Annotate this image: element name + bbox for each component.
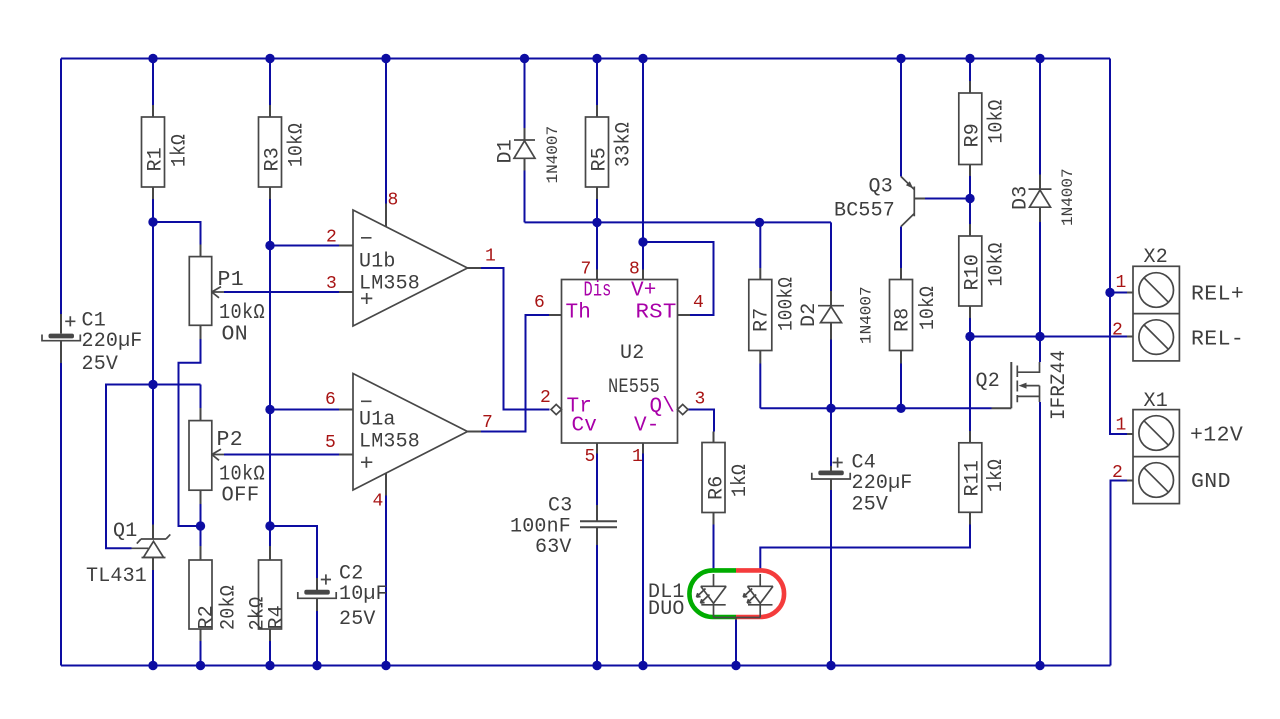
svg-text:+12V: +12V <box>1190 424 1243 448</box>
LED left diode <box>701 574 726 618</box>
svg-text:X2: X2 <box>1144 246 1168 269</box>
svg-text:R2: R2 <box>196 605 219 629</box>
svg-text:6: 6 <box>534 293 545 313</box>
wire V+ column to 555 pin8 <box>642 59 644 270</box>
wire C4 top <box>830 408 832 466</box>
LED ring green half <box>689 570 736 617</box>
svg-text:D2: D2 <box>798 303 821 327</box>
wire R3 top <box>269 59 271 106</box>
wire X2 pin2 net <box>970 336 1128 338</box>
svg-text:1: 1 <box>632 447 643 467</box>
LED cathode bus <box>714 618 761 621</box>
junction top rail R9 <box>965 54 974 63</box>
svg-text:Q3: Q3 <box>869 176 893 199</box>
wire R1 top <box>152 59 154 106</box>
wire D1 bottom <box>524 171 526 223</box>
svg-text:7: 7 <box>581 260 592 280</box>
junction top rail pin8 <box>381 54 390 63</box>
svg-text:P1: P1 <box>218 268 245 292</box>
wire RST loop <box>643 242 714 315</box>
svg-text:DUO: DUO <box>648 598 685 621</box>
junction bottom 555 pin1 <box>638 661 647 670</box>
transistor Q2 IRFZ44 MOSFET <box>976 350 1072 420</box>
svg-text:Q1: Q1 <box>113 520 137 543</box>
svg-text:C3: C3 <box>548 495 572 518</box>
svg-text:25V: 25V <box>852 494 889 517</box>
svg-text:U1b: U1b <box>359 251 396 274</box>
junction P-R2 <box>196 521 205 530</box>
wire left rail upper <box>60 59 62 315</box>
wire R6 bottom to LED <box>713 525 715 573</box>
svg-text:220µF: 220µF <box>82 330 143 353</box>
junction bottom C3 <box>592 661 601 670</box>
wire R3 bottom to R4 top <box>269 199 271 546</box>
svg-text:10kΩ: 10kΩ <box>286 123 309 167</box>
svg-text:10kΩ: 10kΩ <box>219 301 265 325</box>
wire right rail <box>1109 59 1111 293</box>
wire D3 bottom <box>1039 222 1041 337</box>
svg-text:R5: R5 <box>589 147 612 171</box>
terminal X2 <box>1127 246 1244 361</box>
wire X2 pin1 branch <box>1110 292 1128 294</box>
svg-text:3: 3 <box>326 274 337 294</box>
junction bottom R4 <box>265 661 274 670</box>
svg-text:1kΩ: 1kΩ <box>985 459 1008 492</box>
svg-text:2: 2 <box>1112 321 1123 341</box>
junction U1b pin2 <box>265 241 274 250</box>
junction top rail Q3e <box>896 54 905 63</box>
svg-text:R6: R6 <box>706 476 729 500</box>
resistor R11 <box>959 431 1008 525</box>
wire P2 bottom <box>200 504 202 546</box>
wire R4 junction to C2 <box>270 526 317 578</box>
op-amp U1b <box>339 204 481 327</box>
wire R11 top <box>969 337 971 432</box>
junction top rail D1 <box>520 54 529 63</box>
junction D2 gate rail <box>826 404 835 413</box>
svg-text:RST: RST <box>636 302 677 325</box>
diode D2 1N4007 <box>798 286 876 344</box>
wire Q2 drain <box>1039 337 1041 363</box>
junction R5 bottom <box>592 218 601 227</box>
LED right diode <box>748 574 774 618</box>
svg-text:5: 5 <box>325 433 336 453</box>
resistor R1 <box>142 105 192 199</box>
wire D1-D2 rail <box>525 221 832 223</box>
junction R4-C2 <box>265 521 274 530</box>
op-amp U1a <box>339 374 481 496</box>
svg-text:2kΩ: 2kΩ <box>247 597 270 631</box>
svg-text:1N4007: 1N4007 <box>858 286 876 344</box>
svg-text:25V: 25V <box>339 608 376 631</box>
resistor R7 <box>749 268 799 364</box>
wire 555 Cv to C3 <box>596 454 598 506</box>
LED right arrows <box>743 589 756 604</box>
svg-text:Th: Th <box>566 302 592 325</box>
svg-text:2: 2 <box>326 228 337 248</box>
wire Q1 anode to bottom rail <box>152 570 154 666</box>
svg-text:R7: R7 <box>751 308 774 332</box>
svg-text:4: 4 <box>373 492 384 512</box>
svg-text:10kΩ: 10kΩ <box>986 100 1009 144</box>
wire D2 top <box>830 222 832 291</box>
wire R8 bottom <box>900 364 902 409</box>
junction R1-P1 <box>148 217 157 226</box>
pin marker Tr diamond <box>551 404 562 414</box>
svg-text:U1a: U1a <box>359 409 396 432</box>
svg-text:GND: GND <box>1191 470 1231 494</box>
junction bottom LED <box>731 661 740 670</box>
wire U1a out to 555 Th <box>481 315 549 432</box>
svg-text:2: 2 <box>540 388 551 408</box>
resistor R3 <box>259 105 309 199</box>
diode D1 1N4007 <box>495 126 563 184</box>
svg-text:8: 8 <box>629 260 640 280</box>
svg-text:1: 1 <box>485 247 496 267</box>
resistor R10 <box>959 224 1009 318</box>
wire R11 bottom to red LED <box>760 525 970 573</box>
wire R7 top <box>759 222 761 268</box>
svg-text:63V: 63V <box>535 536 572 559</box>
wire X1 pin1 branch <box>1110 293 1128 435</box>
svg-text:X1: X1 <box>1144 390 1168 413</box>
wire C3 bottom <box>596 545 598 666</box>
wire R4 bottom <box>269 641 271 666</box>
wire C4 bottom <box>830 490 832 666</box>
junction top rail R3 <box>265 54 274 63</box>
svg-text:Dis: Dis <box>584 280 612 303</box>
junction bottom R2 <box>196 661 205 670</box>
LED ring red half <box>736 570 784 617</box>
wire TL431 ref net <box>106 385 201 549</box>
junction R8 gate rail <box>896 404 905 413</box>
svg-text:LM358: LM358 <box>359 273 420 296</box>
wire left rail lower <box>60 363 62 666</box>
wire U1a pin4 to bottom rail <box>385 496 387 666</box>
svg-text:1N4007: 1N4007 <box>544 126 562 184</box>
wire U1b out to 555 Tr <box>481 268 550 410</box>
wire R9 top <box>969 59 971 82</box>
svg-text:10µF: 10µF <box>339 583 388 606</box>
svg-text:BC557: BC557 <box>834 200 895 223</box>
transistor Q3 BC557 <box>834 176 925 227</box>
junction top rail R5 <box>592 54 601 63</box>
svg-text:REL-: REL- <box>1191 328 1244 352</box>
svg-text:6: 6 <box>325 390 336 410</box>
LED DL1 DUO <box>648 570 784 621</box>
junction top rail D3 <box>1035 54 1044 63</box>
junction bottom U1a pin4 <box>381 661 390 670</box>
wire P2 wiper to U1a pin5 <box>224 454 339 456</box>
svg-text:25V: 25V <box>82 353 119 376</box>
resistor R5 <box>586 105 636 199</box>
junction V+ RST <box>638 237 647 246</box>
svg-text:1: 1 <box>1116 273 1127 293</box>
svg-text:D1: D1 <box>495 139 518 163</box>
capacitor C2 <box>298 563 388 632</box>
capacitor C3 <box>510 495 617 560</box>
wire D3 top <box>1039 59 1041 175</box>
junction top rail V+ <box>638 54 647 63</box>
junction ref net <box>148 380 157 389</box>
svg-text:7: 7 <box>482 413 493 433</box>
junction D3-Q2 <box>1035 332 1044 341</box>
svg-text:1: 1 <box>1116 416 1127 436</box>
wire Q3 collector to R8 <box>900 227 902 269</box>
junction X2 pin1 <box>1105 288 1114 297</box>
svg-text:R1: R1 <box>145 147 168 171</box>
wire U1b pin2 <box>270 245 339 247</box>
wire LED cathode to bottom rail <box>735 620 737 666</box>
wire bottom rail <box>61 665 1111 667</box>
svg-text:LM358: LM358 <box>359 431 420 454</box>
svg-text:100kΩ: 100kΩ <box>776 277 799 331</box>
svg-text:V+: V+ <box>631 280 657 303</box>
svg-text:R11: R11 <box>962 460 985 497</box>
wire 555 Q out to R6 <box>688 410 714 432</box>
wire X1 pin2 to bottom rail <box>1111 481 1129 666</box>
wire R1 bottom to junction <box>152 199 154 222</box>
junction bottom C4 <box>826 661 835 670</box>
resistor R8 <box>890 268 941 364</box>
svg-text:5: 5 <box>585 447 596 467</box>
svg-text:TL431: TL431 <box>86 565 147 588</box>
svg-text:P2: P2 <box>217 428 244 452</box>
wire R10 bottom <box>969 318 971 337</box>
svg-text:REL+: REL+ <box>1191 283 1244 307</box>
svg-text:U2: U2 <box>620 342 644 365</box>
wire D1 top <box>524 59 526 129</box>
svg-text:IFRZ44: IFRZ44 <box>1048 350 1071 420</box>
wire P2 top <box>200 385 202 409</box>
resistor R4 <box>247 546 289 641</box>
svg-text:V-: V- <box>634 415 660 438</box>
wire top rail <box>61 58 1110 60</box>
wire Q3 base <box>925 198 970 200</box>
wire U1a pin6 <box>270 409 339 411</box>
capacitor C4 <box>812 452 913 517</box>
pin marker Q diamond <box>678 404 689 414</box>
svg-text:R8: R8 <box>892 308 915 332</box>
wire U1b pin8 <box>385 59 387 204</box>
potentiometer P2 <box>189 408 265 508</box>
wire gate rail <box>760 407 991 409</box>
svg-text:10kΩ: 10kΩ <box>986 243 1009 287</box>
svg-text:33kΩ: 33kΩ <box>613 122 636 167</box>
svg-text:3: 3 <box>695 390 706 410</box>
svg-text:Q2: Q2 <box>976 370 1000 393</box>
resistor R9 <box>959 81 1009 176</box>
junction bottom C2 <box>312 661 321 670</box>
wire P1 bottom to R2 junction <box>179 339 201 526</box>
wire R5 top <box>596 59 598 106</box>
svg-text:D3: D3 <box>1010 186 1033 210</box>
svg-text:R9: R9 <box>962 123 985 147</box>
svg-text:OFF: OFF <box>222 484 260 508</box>
svg-text:1kΩ: 1kΩ <box>729 464 752 497</box>
wire R1 junction to Q1 cathode <box>152 222 154 525</box>
wire Q3 emitter <box>900 59 902 177</box>
svg-text:20kΩ: 20kΩ <box>218 585 241 630</box>
wire R5 bottom to 555 pin7 <box>596 199 598 270</box>
LED left arrows <box>697 589 710 604</box>
svg-text:2: 2 <box>1112 463 1123 483</box>
resistor R2 <box>189 546 241 641</box>
svg-text:R10: R10 <box>962 254 985 291</box>
wire R7 bottom <box>759 364 761 409</box>
wire R9 bottom to base junction <box>969 176 971 224</box>
terminal X1 <box>1127 390 1243 504</box>
wire C2 bottom <box>316 611 318 666</box>
svg-text:Cv: Cv <box>572 415 598 438</box>
svg-text:10kΩ: 10kΩ <box>917 286 940 330</box>
svg-text:8: 8 <box>388 191 399 211</box>
potentiometer P1 <box>189 245 265 347</box>
diode D3 1N4007 <box>1010 168 1078 226</box>
wire R2 bottom <box>200 641 202 666</box>
timer U2 NE555 <box>549 270 690 454</box>
junction R7 top <box>755 218 764 227</box>
svg-text:4: 4 <box>693 293 704 313</box>
junction bottom Q1 <box>148 661 157 670</box>
svg-text:R3: R3 <box>262 147 285 171</box>
wire Q2 source to bottom rail <box>1039 402 1041 666</box>
wire D2 bottom <box>830 340 832 409</box>
junction top rail R1 <box>148 54 157 63</box>
svg-text:ON: ON <box>222 323 249 347</box>
junction U1a pin6 <box>265 405 274 414</box>
junction R10-R11 <box>965 332 974 341</box>
wire P1 wiper to U1b pin3 <box>224 291 339 293</box>
svg-text:1kΩ: 1kΩ <box>169 134 192 167</box>
svg-text:1N4007: 1N4007 <box>1059 168 1077 226</box>
wire 555 pin1 to bottom rail <box>642 454 644 666</box>
junction Q3 base <box>965 194 974 203</box>
svg-text:220µF: 220µF <box>852 472 913 495</box>
capacitor C1 <box>42 310 143 377</box>
resistor R6 <box>702 432 752 525</box>
wire junction to P1 top <box>153 222 201 245</box>
shunt regulator Q1 TL431 <box>86 520 170 588</box>
junction bottom Q2 source <box>1035 661 1044 670</box>
